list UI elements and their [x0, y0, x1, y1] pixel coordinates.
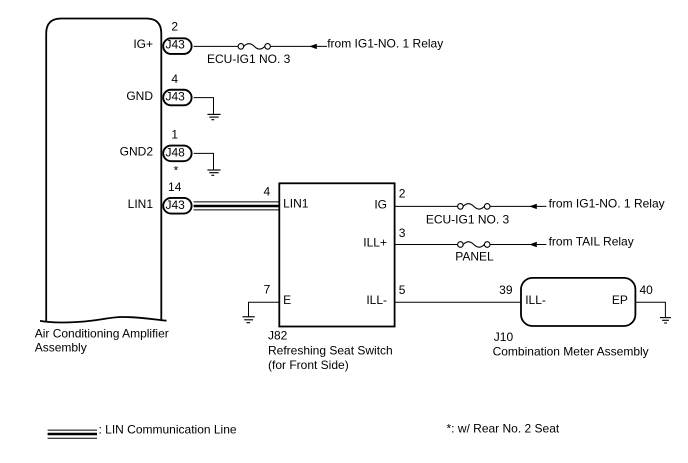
LIN communication wire (triple line)	[194, 202, 280, 210]
svg-text:GND: GND	[126, 89, 153, 103]
svg-text:LIN1: LIN1	[283, 197, 309, 211]
svg-text:ILL-: ILL-	[366, 293, 387, 307]
arrow from IG1-NO. 1 Relay (IG row)	[529, 204, 537, 209]
svg-text:ILL-: ILL-	[525, 293, 546, 307]
connector oval J48 (GND2)	[163, 146, 191, 162]
ground symbol (GND2)	[207, 170, 220, 175]
ground symbol (E)	[242, 317, 254, 323]
svg-text:39: 39	[499, 283, 513, 297]
svg-text:3: 3	[399, 226, 406, 240]
svg-text:*: *	[174, 163, 179, 177]
svg-text:14: 14	[168, 180, 182, 194]
wire IG to fuse	[395, 205, 458, 207]
fuse ECU-IG1 NO. 3 (middle)	[458, 204, 464, 210]
connector oval J43 (LIN1)	[163, 198, 191, 214]
svg-text:ILL+: ILL+	[363, 235, 387, 249]
svg-text:Air Conditioning Amplifier: Air Conditioning Amplifier	[35, 326, 169, 340]
wire ILL- to J10	[395, 301, 521, 303]
svg-text:4: 4	[264, 184, 271, 198]
wire fuse to arrow (ILL+ row)	[490, 244, 546, 246]
svg-text:from IG1-NO. 1 Relay: from IG1-NO. 1 Relay	[549, 196, 665, 210]
legend: LIN communication line symbol	[48, 430, 97, 438]
ground symbol (EP)	[660, 318, 671, 323]
wire IG+ to fuse	[194, 45, 239, 47]
svg-text:J43: J43	[166, 37, 186, 51]
wavy bottom edge of ECU box	[40, 317, 167, 322]
svg-text:2: 2	[399, 187, 406, 201]
svg-text:PANEL: PANEL	[455, 250, 494, 264]
fuse ECU-IG1 NO. 3 (top)	[238, 44, 244, 50]
svg-text:J48: J48	[166, 145, 186, 159]
wire ILL+ to fuse	[395, 244, 458, 246]
svg-text:4: 4	[171, 72, 178, 86]
svg-text:J43: J43	[166, 198, 186, 212]
ground symbol (GND)	[207, 114, 220, 119]
svg-text:J43: J43	[166, 90, 186, 104]
wire fuse to arrow (IG row)	[490, 205, 546, 207]
svg-text:Assembly: Assembly	[35, 341, 87, 355]
svg-text:Combination Meter Assembly: Combination Meter Assembly	[493, 344, 649, 358]
arrow from IG1-NO. 1 Relay (top)	[309, 44, 317, 49]
ECU box: Air Conditioning Amplifier Assembly	[46, 19, 161, 322]
wire fuse to arrow	[270, 45, 327, 47]
switch box J82: Refreshing Seat Switch	[279, 183, 394, 326]
svg-text:Refreshing Seat Switch: Refreshing Seat Switch	[268, 343, 393, 357]
svg-text:(for Front Side): (for Front Side)	[268, 358, 349, 372]
svg-text:7: 7	[264, 283, 271, 297]
svg-text:GND2: GND2	[120, 145, 154, 159]
connector oval J43 (GND)	[163, 90, 191, 106]
meter box J10: Combination Meter Assembly	[521, 278, 635, 326]
wire E to ground	[249, 302, 280, 317]
fuse PANEL	[458, 242, 464, 248]
wire EP to ground	[635, 302, 665, 317]
svg-text:IG: IG	[374, 197, 387, 211]
svg-text:IG+: IG+	[133, 37, 153, 51]
svg-text:LIN1: LIN1	[128, 197, 154, 211]
svg-text:5: 5	[399, 283, 406, 297]
svg-text:*: w/ Rear No. 2 Seat: *: w/ Rear No. 2 Seat	[447, 422, 560, 436]
svg-text:from IG1-NO. 1 Relay: from IG1-NO. 1 Relay	[327, 36, 443, 50]
svg-text:ECU-IG1 NO. 3: ECU-IG1 NO. 3	[426, 213, 510, 227]
svg-text:ECU-IG1 NO. 3: ECU-IG1 NO. 3	[207, 52, 291, 66]
svg-text:1: 1	[171, 128, 178, 142]
svg-text:40: 40	[640, 283, 654, 297]
svg-text:J10: J10	[494, 330, 514, 344]
svg-text:EP: EP	[612, 293, 628, 307]
connector oval J43 (IG+)	[163, 38, 191, 54]
svg-text:2: 2	[171, 19, 178, 33]
svg-text:J82: J82	[268, 328, 288, 342]
arrow from TAIL Relay	[529, 242, 537, 247]
svg-text:from TAIL Relay: from TAIL Relay	[549, 234, 634, 248]
svg-text:E: E	[283, 293, 291, 307]
svg-text:: LIN Communication Line: : LIN Communication Line	[99, 423, 237, 437]
wire GND2 to ground	[194, 153, 214, 170]
wire GND to ground	[194, 98, 214, 115]
